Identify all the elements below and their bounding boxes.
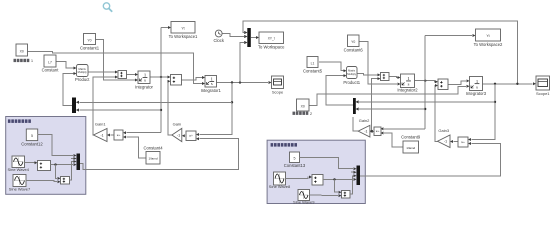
- label Constant13: [284, 163, 306, 168]
- wire annotation1 mux feedback to divide block 2 input 2: [80, 137, 239, 169]
- wire Integrator output column x161: [160, 28, 162, 133]
- label Integrator: [135, 84, 154, 89]
- label To Workspace: [258, 45, 285, 50]
- wire Gain2 output stub: [353, 117, 358, 131]
- label Product1: [343, 80, 360, 85]
- svg-text:Y0: Y0: [87, 38, 91, 42]
- block Sum1: [118, 71, 127, 79]
- svg-text:s: s: [476, 84, 478, 89]
- svg-text:×÷: ×÷: [117, 133, 121, 137]
- block To Workspace2 (Yt): [476, 29, 501, 41]
- block Sum3: [381, 73, 390, 81]
- block divide block 3: [374, 127, 381, 136]
- svg-text:2: 2: [310, 112, 312, 116]
- block Clock: [215, 30, 222, 37]
- wire Mux3 to To Workspace XY_t: [251, 36, 259, 39]
- label To Workspace2: [474, 42, 503, 47]
- annotation region 2 (generate desired path, right): [267, 140, 365, 203]
- block Constant4: [146, 152, 160, 165]
- block divide block 4: [458, 137, 468, 147]
- block Gain2 (triangle): [358, 118, 370, 137]
- svg-text:×÷: ×÷: [376, 130, 380, 134]
- wire Constant4 to divide block 1 input 2: [123, 136, 146, 159]
- svg-text:Constant6: Constant6: [344, 47, 364, 52]
- mux Mux3: [244, 28, 251, 47]
- label Product: [75, 77, 90, 82]
- block Integrator3: [470, 77, 483, 91]
- svg-text:Yt: Yt: [181, 26, 184, 30]
- block X0 right (initial x2): [297, 99, 310, 111]
- svg-text:Integrator: Integrator: [135, 84, 154, 89]
- wire Sum7 to annotation2 mux input 4: [323, 178, 357, 181]
- block divide block 2: [186, 131, 196, 141]
- label Constant4: [143, 145, 163, 150]
- wire Constant9 to divide block 3 input 2: [381, 132, 404, 148]
- wire Sine Wave4 to Sum5 input 1: [25, 161, 38, 164]
- svg-text:Multiply: Multiply: [347, 72, 356, 76]
- block Constant (L7): [44, 55, 56, 67]
- wire Sum3 to Integrator2: [389, 76, 401, 79]
- wire divide block 3 to Gain2: [370, 130, 374, 133]
- wire annotation1 stub mux input 2: [71, 157, 77, 160]
- block Sum6: [61, 177, 70, 185]
- svg-text:Constant9: Constant9: [401, 135, 421, 140]
- svg-text:Gain: Gain: [173, 121, 181, 126]
- svg-text:Multiply: Multiply: [78, 70, 88, 74]
- wire Integrator3 column x495 down: [468, 84, 495, 141]
- annotation region 2 title (Chinese): [271, 143, 297, 147]
- node column x425 mux tap: [424, 108, 426, 110]
- wire Constant6 to Integrator2 IC port: [359, 42, 401, 86]
- block X0 (initial x): [16, 44, 28, 56]
- svg-text:s: s: [408, 81, 410, 86]
- svg-text:s: s: [144, 77, 146, 82]
- block Sum2: [171, 75, 182, 86]
- label of X0 (Chinese, initial value 1): [14, 59, 34, 63]
- block Integrator1: [205, 76, 217, 88]
- wire Constant13 to annotation2 mux input 1: [300, 158, 357, 171]
- mux Mux1: [72, 98, 79, 114]
- wire Sum6 to annotation1 mux input 3: [70, 160, 77, 180]
- wire Sum5 branch to Sum6 input 1: [56, 165, 61, 180]
- svg-text:Sine Wave9: Sine Wave9: [293, 199, 315, 204]
- wire X0 right to Integrator3 IC port: [309, 85, 470, 106]
- block Scope: [272, 76, 284, 95]
- block Product1 (matrix multiply): [347, 67, 358, 79]
- svg-text:Yt: Yt: [486, 34, 489, 38]
- wire Mux4 output to Product1 input 2: [326, 74, 353, 105]
- svg-text:-1: -1: [177, 133, 180, 137]
- svg-text:5: 5: [31, 134, 33, 138]
- block Sine Wave8: [269, 172, 291, 189]
- wire X0 to Integrator1 IC port: [28, 52, 206, 86]
- block Constant12 (value 5): [26, 129, 37, 141]
- wire Integrator1 to Scope: [217, 81, 272, 84]
- wire column x161 to To Workspace1: [161, 26, 171, 29]
- wire column x232 to Mux1 input 1: [76, 101, 232, 104]
- svg-text:Sine Wave7: Sine Wave7: [9, 186, 31, 191]
- block Sine Wave9: [293, 190, 315, 205]
- wire Sum4 to Integrator3: [448, 79, 470, 84]
- wire Mux1 output to Product input 2: [63, 72, 77, 106]
- label Clock: [213, 38, 224, 43]
- block Gain3 (triangle): [438, 128, 451, 147]
- svg-text:Constant5: Constant5: [303, 68, 323, 73]
- wire annotation2 mux feedback to divide block 4 input 2: [360, 142, 501, 176]
- svg-text:Sine Wave8: Sine Wave8: [269, 184, 291, 189]
- svg-text:Constant4: Constant4: [143, 145, 163, 150]
- label To Workspace1: [169, 34, 198, 39]
- svg-text:To Workspace1: To Workspace1: [169, 34, 198, 39]
- block To Workspace1 (Yt): [171, 22, 195, 34]
- wire divide block 1 to Gain1: [107, 134, 114, 137]
- wire column x425 to divide block 3 input 1: [381, 127, 426, 130]
- svg-text:Product1: Product1: [343, 80, 360, 85]
- wire Gain3 to Sum4 input 2: [435, 84, 438, 141]
- block divide block 1: [114, 130, 123, 140]
- wire divide block 4 to Gain3: [450, 140, 458, 143]
- svg-text:×÷: ×÷: [189, 134, 193, 138]
- label Constant1: [80, 46, 100, 51]
- node Integrator output branch: [160, 76, 162, 78]
- node Integrator1 output branch down: [231, 81, 233, 83]
- label Constant5: [303, 68, 323, 73]
- block Constant13 (value 5): [290, 152, 300, 163]
- block Scope1: [536, 76, 550, 96]
- mux Mux4: [353, 98, 359, 114]
- wire Gain1 to Sum1 input 2: [93, 76, 118, 136]
- wire column x425 to To Workspace2: [425, 34, 475, 37]
- svg-text:s: s: [211, 81, 213, 86]
- magnifier icon: [103, 3, 112, 12]
- wire Product to Sum1 input 1: [88, 71, 118, 74]
- svg-text:Gain3: Gain3: [438, 128, 449, 133]
- svg-text:-1: -1: [444, 140, 447, 144]
- svg-text:L1: L1: [311, 61, 315, 65]
- wire Integrator3 loopback top line to Mux3 input 1: [243, 21, 517, 84]
- wire Constant1 to Integrator IC port: [96, 40, 139, 82]
- wire Sum2 to Integrator1: [182, 76, 206, 80]
- node column x495 mux tap: [494, 101, 496, 103]
- block Integrator2: [401, 74, 415, 88]
- wire divide block 3 riser to Sum3 input 2: [370, 77, 380, 132]
- wire Integrator2 column x425: [424, 36, 426, 129]
- block Sum5: [38, 161, 51, 171]
- svg-text:Integrator2: Integrator2: [397, 87, 418, 92]
- block Constant9: [403, 141, 419, 153]
- label Constant9: [401, 135, 421, 140]
- svg-text:Integrator3: Integrator3: [466, 91, 487, 96]
- label Constant12: [21, 142, 43, 147]
- svg-text:1: 1: [31, 59, 33, 63]
- block Gain1 (triangle): [94, 122, 108, 142]
- wire Sum8 to annotation2 mux input 3: [350, 174, 357, 194]
- mux annotation2 Mux5: [357, 166, 361, 186]
- svg-text:Scope: Scope: [272, 90, 284, 95]
- block Constant5 (L1): [307, 57, 318, 68]
- wire Product1 to Sum3 input 1: [357, 73, 381, 76]
- block Sine Wave7: [9, 175, 31, 192]
- svg-text:-1: -1: [101, 133, 104, 137]
- wire Constant5 L1 to Product1 input 1: [319, 62, 347, 72]
- wire Sum5 to annotation1 mux input 4: [51, 163, 77, 166]
- block Product (matrix multiply): [77, 65, 89, 77]
- wire Integrator1 column x240 up to Mux3 input 3: [240, 41, 247, 83]
- wire Integrator3 to Scope1: [483, 82, 537, 85]
- wire Sine Wave9 to Sum8 input 2: [310, 194, 342, 197]
- svg-text:XY_t: XY_t: [268, 37, 275, 41]
- node Integrator2 output branch: [424, 80, 426, 82]
- svg-text:Constant12: Constant12: [21, 142, 43, 147]
- wire Integrator to Sum2 input 1: [150, 76, 171, 79]
- svg-text:Constant1: Constant1: [80, 46, 100, 51]
- label Integrator3: [466, 91, 487, 96]
- label Constant: [42, 68, 60, 73]
- block Sum8: [342, 191, 351, 199]
- svg-text:L7: L7: [48, 60, 52, 64]
- svg-text:1/lamd: 1/lamd: [406, 146, 415, 150]
- svg-text:X0: X0: [20, 49, 24, 53]
- label Constant6: [344, 47, 364, 52]
- block Sum4: [438, 79, 448, 90]
- wire divide block 2 to Gain: [182, 134, 186, 137]
- wire Gain to Sum2 input 2: [168, 80, 172, 135]
- node Integrator1 output branch up: [239, 81, 241, 83]
- label Integrator1: [201, 88, 222, 93]
- wire Integrator2 to Sum4 input 1: [415, 80, 439, 83]
- wire annotation2 stub mux input 2: [351, 171, 357, 174]
- wire Sum1 to Integrator: [127, 73, 139, 76]
- svg-text:Product: Product: [75, 77, 90, 82]
- svg-text:1/lamd: 1/lamd: [148, 157, 157, 161]
- wire column x495 to Mux4 input 1: [356, 100, 495, 103]
- svg-text:Matrix: Matrix: [79, 67, 87, 71]
- svg-text:Y0: Y0: [351, 40, 355, 44]
- wire Constant12 to annotation1 mux input 1: [38, 134, 77, 157]
- label Integrator2: [397, 87, 418, 92]
- svg-text:Gain1: Gain1: [95, 122, 106, 127]
- block Integrator: [138, 71, 150, 84]
- annotation region 1 title (Chinese): [8, 119, 31, 123]
- svg-text:X0: X0: [301, 104, 305, 108]
- svg-text:To Workspace: To Workspace: [258, 45, 285, 50]
- svg-text:-1: -1: [364, 130, 367, 134]
- wire column x425 to Mux4 input 2: [356, 108, 426, 111]
- block Sum7: [312, 175, 323, 186]
- mux annotation1 Mux6: [77, 154, 81, 171]
- block Gain (triangle): [172, 121, 182, 141]
- wire column x161 to divide block 1 input 1: [123, 131, 161, 134]
- svg-text:To Workspace2: To Workspace2: [474, 42, 503, 47]
- wire column x161 to Mux1 input 2: [76, 109, 161, 112]
- node column x232 mux tap: [231, 101, 233, 103]
- node Integrator3 output branch up: [516, 83, 518, 85]
- wire Clock to Mux3 input 2: [222, 34, 247, 39]
- svg-text:Scope1: Scope1: [536, 91, 550, 96]
- node column x161 mux tap: [160, 109, 162, 111]
- wire Sum7 branch to Sum8 input 1: [335, 179, 342, 193]
- svg-text:×÷: ×÷: [461, 140, 465, 144]
- wire Integrator1 column x232 down: [196, 83, 232, 137]
- block To Workspace (XY_t): [259, 32, 284, 44]
- svg-text:Sine Wave4: Sine Wave4: [8, 167, 30, 172]
- node Integrator3 output branch down: [494, 83, 496, 85]
- svg-text:Integrator1: Integrator1: [201, 88, 222, 93]
- annotation region 1 (generate desired path, left): [6, 117, 86, 195]
- svg-text:Constant: Constant: [42, 68, 60, 73]
- wire Sine Wave8 to Sum7 input 1: [286, 176, 313, 179]
- wire Constant L7 to Product input 1: [56, 62, 77, 70]
- svg-text:Clock: Clock: [213, 38, 224, 43]
- svg-text:Constant13: Constant13: [284, 163, 306, 168]
- block Constant6 (Y0): [348, 35, 360, 47]
- block Sine Wave4: [8, 156, 30, 172]
- label of X0 right (Chinese, initial value 2): [293, 112, 313, 116]
- block Constant1 (Y0): [84, 34, 96, 45]
- wire Sine Wave7 to Sum6 input 2: [26, 180, 61, 183]
- svg-text:5: 5: [294, 156, 296, 160]
- svg-text:Gain2: Gain2: [359, 118, 370, 123]
